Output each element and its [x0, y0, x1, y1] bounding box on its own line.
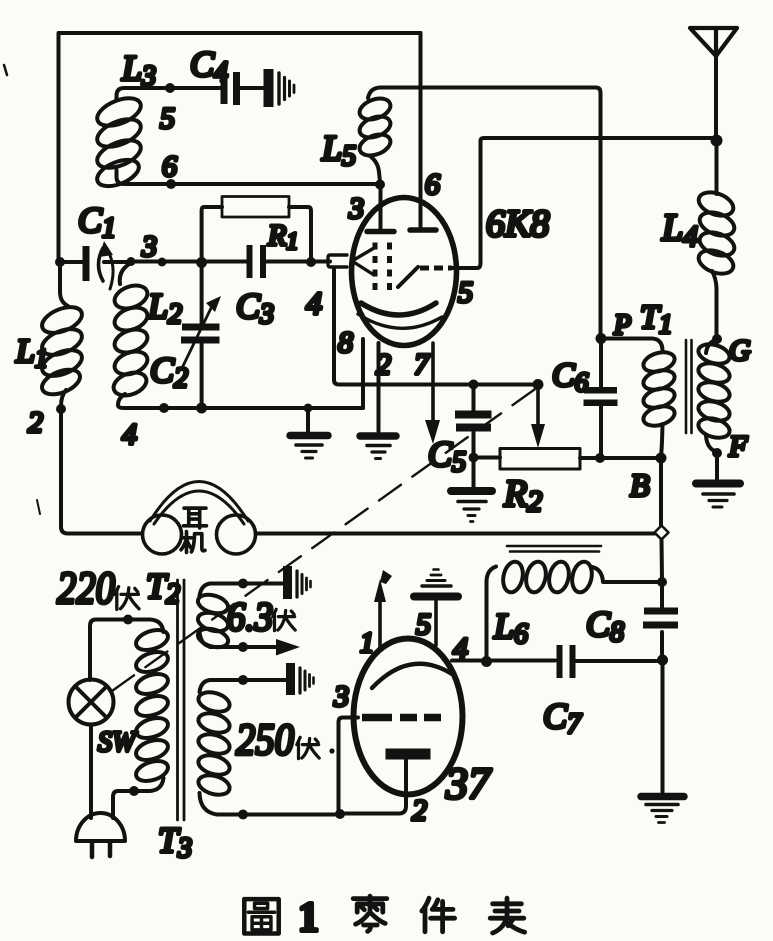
label 6.3 [227, 594, 273, 639]
chassis ground 6.3V top [283, 566, 311, 599]
caption 表 [490, 898, 524, 933]
capacitor C7 [557, 645, 576, 678]
capacitor C4 [221, 72, 241, 105]
wire L5 top to plate corner [380, 88, 601, 337]
label C1 [78, 200, 116, 244]
svg-text:4: 4 [306, 285, 322, 321]
chassis ground at C4 [264, 69, 295, 107]
svg-text:L3: L3 [121, 48, 156, 92]
svg-text:6.3: 6.3 [227, 594, 273, 639]
electrode plate bar 37 [386, 749, 431, 760]
node open diamond junction [655, 526, 669, 540]
wire antenna down to L4 [715, 141, 719, 195]
svg-text:2: 2 [28, 406, 43, 439]
pin label 2 [376, 348, 391, 381]
wire plate pin2 lead [341, 759, 406, 814]
node junction R1 right [306, 257, 316, 267]
node junction L1 terminal 2 [56, 404, 66, 414]
electrode anode diagonal pin5 [398, 267, 452, 287]
transformer T2 primary [128, 620, 170, 792]
svg-text:6: 6 [425, 168, 440, 201]
label L2 [147, 286, 182, 330]
svg-text:C2: C2 [150, 350, 188, 394]
wire B+ rail [474, 456, 662, 461]
coil L3 [93, 88, 169, 191]
node junction grid return [335, 809, 345, 819]
svg-text:C7: C7 [543, 696, 582, 740]
node junction 6.3V top [238, 579, 248, 589]
node junction T1 primary bottom B [656, 453, 667, 464]
label L5 [321, 128, 356, 172]
svg-text:5: 5 [416, 608, 431, 641]
label F [728, 430, 748, 463]
resistor R1 [202, 197, 311, 263]
wire B down to node [659, 458, 663, 525]
label C5 [428, 434, 466, 478]
choke L6 [487, 560, 661, 594]
transformer T2 core [178, 580, 185, 820]
pin label 3 [333, 680, 349, 713]
svg-text:L6: L6 [493, 606, 528, 650]
wiper arrow into R2 [531, 389, 545, 448]
resistor R2 potentiometer [500, 449, 580, 470]
transformer T1 core [686, 340, 692, 433]
pilot lamp switch SW [69, 680, 114, 725]
svg-text:3: 3 [141, 230, 157, 263]
wire pin1 lead heater arrow [374, 570, 392, 650]
transformer T1 primary [601, 339, 677, 457]
label C3 [236, 286, 274, 330]
wire pin2 lead to ground [377, 343, 381, 431]
pin label 5 [160, 102, 175, 135]
label B [630, 467, 650, 503]
pin label 1 [360, 628, 374, 659]
wire pin5 lead [434, 600, 438, 645]
ground at cathode return [290, 408, 328, 458]
electrode dashed grid column 1 [373, 243, 378, 292]
node junction cathode ground tap [304, 404, 313, 413]
svg-text:B: B [630, 467, 650, 503]
coil L2 [110, 263, 150, 405]
speck left mid [37, 500, 40, 514]
wire L3 bottom to L5 bottom [132, 182, 380, 186]
wire grid pin3 [339, 718, 359, 813]
wire top border [59, 33, 421, 260]
svg-text:P: P [613, 310, 631, 341]
electrode dashed grid column 2 [387, 243, 392, 292]
svg-text:L2: L2 [147, 286, 182, 330]
node junction plate C6 T1 [596, 333, 607, 344]
label T2 [146, 566, 180, 610]
label L1 [15, 333, 48, 373]
svg-text:C4: C4 [190, 44, 228, 88]
label L3 [121, 48, 156, 92]
pin label 7 [414, 348, 431, 381]
node junction C5 bottom [469, 453, 479, 463]
svg-text:L1: L1 [15, 333, 48, 373]
capacitor C5 [455, 385, 492, 487]
label 220 [57, 562, 115, 613]
node junction L3 pin6 [166, 179, 176, 189]
capacitor C6 [584, 339, 618, 457]
speck left margin [4, 65, 7, 75]
label T3 [158, 820, 192, 864]
pin label 4 [306, 285, 322, 321]
tube 37 envelope U2 [354, 639, 463, 795]
svg-text:3: 3 [348, 192, 364, 225]
capacitor C3 [247, 245, 267, 278]
svg-text:5: 5 [458, 276, 473, 309]
label SW [98, 727, 138, 758]
svg-text:37: 37 [445, 759, 492, 808]
transformer T3 winding 250V [196, 680, 232, 815]
pin label 2 [412, 794, 427, 827]
label L4 [661, 207, 698, 253]
electrode triode plate arc [361, 303, 436, 315]
electrode bottom arc [358, 314, 442, 328]
svg-text:C8: C8 [586, 604, 624, 648]
electrode grid bar pin3 [367, 229, 394, 235]
node junction primary bottom [129, 786, 139, 796]
node junction C1 left [55, 257, 65, 267]
svg-text:L4: L4 [661, 207, 698, 253]
svg-text:C1: C1 [78, 200, 116, 244]
pin label 3 [348, 192, 364, 225]
pin label 8 [338, 326, 353, 359]
svg-text:7: 7 [414, 348, 431, 381]
wire pin5 to antenna line [453, 138, 714, 268]
svg-text:G: G [729, 334, 751, 367]
wire C7 to C8 bottom [576, 659, 661, 663]
svg-text:5: 5 [160, 102, 175, 135]
coil L1 [38, 302, 85, 406]
label C8 [586, 604, 624, 648]
headphones earpiece left [143, 515, 182, 554]
svg-text:C6: C6 [552, 357, 589, 397]
svg-text:C3: C3 [236, 286, 274, 330]
wire node down to C8 [660, 540, 665, 581]
wire left vertical C1 to L1 [60, 262, 68, 306]
svg-text:1: 1 [298, 895, 319, 941]
svg-text:F: F [728, 430, 748, 463]
caption 圖 [244, 899, 278, 933]
node junction L2 terminal 4 [159, 403, 169, 413]
wire tuned circuit bottom [118, 405, 363, 408]
label T1 [640, 299, 672, 339]
node junction R2 wiper tap [533, 379, 544, 390]
svg-text:T1: T1 [640, 299, 672, 339]
period after 250V [329, 748, 334, 753]
ground under F [696, 453, 740, 507]
node junction C6 bottom [595, 453, 605, 463]
coil L5 [357, 88, 394, 183]
label 机 [181, 532, 205, 553]
node junction mains top [123, 615, 133, 625]
node junction 250V winding end [238, 810, 248, 820]
wire pin8 lead to cathode return [361, 339, 365, 408]
label G [729, 334, 751, 367]
wire L6 left leg [485, 582, 489, 662]
svg-text:C5: C5 [428, 434, 466, 478]
pin label 6 [425, 168, 440, 201]
wire C3 to grid cap [266, 260, 311, 264]
node junction antenna tap [711, 135, 723, 147]
node junction C8 bottom [657, 655, 668, 666]
svg-text:4: 4 [453, 632, 468, 665]
grid cap connector 6K8 pin4 [328, 248, 374, 275]
label C2 [150, 350, 188, 394]
pin label 5 [458, 276, 473, 309]
label 37 [445, 759, 492, 808]
svg-text:L5: L5 [321, 128, 356, 172]
svg-text:2: 2 [412, 794, 427, 827]
wire pin6 drop from top border [419, 33, 423, 227]
antenna [690, 28, 737, 139]
label R2 [503, 473, 542, 518]
label L6 [493, 606, 528, 650]
pin label 5 [416, 608, 431, 641]
wire pin3 lead [379, 184, 383, 228]
node junction 250V top [238, 675, 248, 685]
wire mains top [90, 620, 128, 681]
transformer T3 winding 6.3V [196, 584, 230, 651]
wire pin4 of 37 to C7 [452, 659, 555, 663]
chassis shield above pin5 [414, 570, 458, 597]
node junction C2 bottom [196, 403, 207, 414]
pin label 2 [28, 406, 43, 439]
label C4 [190, 44, 228, 88]
svg-text:4: 4 [122, 418, 137, 451]
node junction T1 secondary bottom F [712, 448, 722, 458]
caption 1 [298, 895, 319, 941]
choke L6 iron core [507, 546, 601, 552]
ground under pin2 [360, 436, 396, 459]
chassis ground 250V top [286, 663, 314, 695]
label 伏 after 220 [115, 587, 139, 610]
transformer T1 secondary [696, 339, 732, 452]
pin label 4 [122, 418, 137, 451]
wire 6.3V top to chassis [210, 582, 282, 586]
node junction 6.3V bottom [238, 642, 248, 652]
svg-text:T2: T2 [146, 566, 180, 610]
label 6K8 [486, 203, 549, 245]
node junction L6 left leg [481, 656, 492, 667]
svg-text:T3: T3 [158, 820, 192, 864]
svg-text:6: 6 [162, 150, 177, 183]
svg-text:6K8: 6K8 [486, 203, 549, 245]
svg-text:SW: SW [98, 727, 138, 758]
node junction L2 terminal 3 [158, 258, 167, 267]
wire to grid cap [311, 260, 330, 264]
svg-text:220: 220 [57, 562, 115, 613]
wire phones to output node [256, 532, 655, 536]
node junction T1 secondary top G [712, 334, 722, 344]
pin label 4 [453, 632, 468, 665]
label 250 [236, 715, 294, 764]
wire pin7 lead with heater arrow [425, 343, 440, 444]
pin label 3 [141, 230, 157, 263]
label R1 [267, 219, 298, 255]
caption 件 [422, 898, 455, 932]
capacitor C1 variable [60, 241, 130, 289]
headphones band [150, 482, 248, 525]
wire primary bottom to plug [113, 791, 134, 818]
capacitor C8 [643, 582, 678, 656]
wire 250V top to chassis [210, 678, 285, 682]
node junction C2 top [196, 257, 207, 268]
pin label 6 [162, 150, 177, 183]
node junction C8 top [657, 577, 667, 587]
electrode grid dashes 37 [362, 714, 441, 722]
wire down to ground bottom right [661, 660, 665, 792]
wire lamp to plug [89, 725, 93, 819]
ground under C5 [451, 491, 492, 522]
svg-text:8: 8 [338, 326, 353, 359]
label C6 [552, 357, 589, 397]
caption 零 [353, 896, 387, 931]
dashed gang link SW to R2 [112, 387, 538, 691]
svg-text:3: 3 [333, 680, 349, 713]
capacitor C2 variable [181, 263, 221, 408]
coil L4 [695, 188, 737, 336]
node junction L3 pin5 [165, 83, 175, 93]
wire pin4 down and across [334, 269, 538, 385]
wire HT return [217, 813, 341, 817]
node junction L5 bottom pin3 [375, 180, 385, 190]
wire L1 down to phones line [61, 409, 142, 534]
wire L3 to C4 [170, 86, 220, 90]
svg-text:R1: R1 [267, 219, 298, 255]
label 耳 [184, 508, 207, 528]
electrode inner dome arc [372, 664, 452, 688]
svg-text:R2: R2 [503, 473, 542, 518]
label C7 [543, 696, 582, 740]
wire 6.3V bottom with heater arrow [210, 639, 300, 656]
mains plug [76, 813, 125, 857]
electrode grid bar pin6 [410, 227, 436, 233]
label 伏 after 250 [297, 737, 319, 758]
svg-text:250: 250 [236, 715, 294, 764]
tube 6K8 envelope U1 [352, 198, 457, 346]
ground bottom right [641, 797, 684, 823]
headphones earpiece right [217, 515, 256, 554]
wire grid line [131, 260, 246, 264]
label 伏 after 6.3 [273, 609, 295, 630]
label P [613, 310, 631, 341]
wire C4 to chassis [240, 86, 264, 90]
node junction grid line left [127, 257, 136, 266]
node junction C5 top [469, 380, 479, 390]
svg-text:1: 1 [360, 628, 374, 659]
